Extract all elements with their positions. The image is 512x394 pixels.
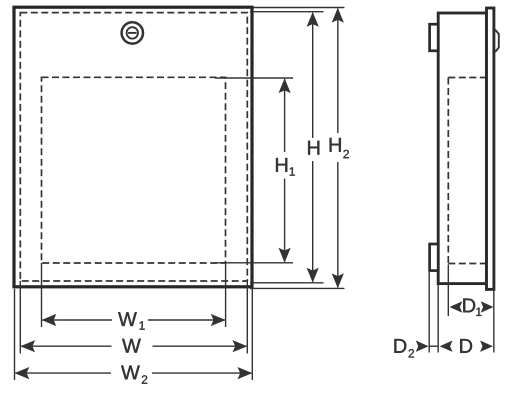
front view inner body dashed rect <box>20 13 247 281</box>
dimension W2 line and arrows <box>15 367 253 379</box>
dimension W1 line and arrows <box>42 314 226 326</box>
dimension D2 line and arrow <box>416 341 438 352</box>
dimension D arrows <box>440 341 493 352</box>
dimension D1 arrows <box>450 301 494 312</box>
dimension W extension lines <box>20 281 247 354</box>
label W1 <box>118 312 145 329</box>
side view bottom mounting bracket <box>430 244 439 271</box>
dimension H2 line and arrows <box>332 8 344 288</box>
dimension H1 extension lines <box>215 78 293 263</box>
label D2 <box>394 339 414 357</box>
dimension W1 extension lines <box>42 263 226 327</box>
label H2 <box>330 138 349 158</box>
dimension D extension lines <box>437 285 439 353</box>
dimension D2 extension line <box>428 272 430 353</box>
dimension W line and arrows <box>20 340 247 352</box>
label W2 <box>121 366 147 384</box>
side view latch bump <box>495 30 499 52</box>
front view outer body rect <box>14 7 252 287</box>
dimension H2 extension lines <box>250 8 345 289</box>
dimension W2 extension lines <box>15 289 253 380</box>
label D1 <box>463 299 481 316</box>
label W <box>122 339 141 353</box>
dimension D1 extension lines <box>448 265 494 353</box>
side view body rect <box>438 13 486 284</box>
front view door opening dashed rect <box>42 77 226 263</box>
lock latch symbol <box>122 22 143 43</box>
label H1 <box>276 158 295 176</box>
side view top mounting bracket <box>430 24 439 51</box>
side view door/flange rect <box>487 8 494 289</box>
label H <box>308 141 319 155</box>
dimension H1 line and arrows <box>279 78 291 262</box>
dimension H line and arrows <box>307 12 319 283</box>
side view door opening dashed lines <box>448 78 485 264</box>
dimension H extension lines <box>250 12 324 283</box>
label D <box>460 339 472 353</box>
